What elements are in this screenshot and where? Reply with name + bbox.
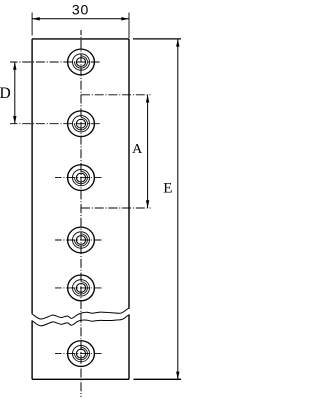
hole 2 — [68, 111, 95, 137]
hole 2 crosshair horizontal (also D bottom extension) — [10, 123, 101, 125]
break line lower wavy — [32, 315, 130, 326]
dim E: bottom arrow — [176, 372, 179, 380]
vertical centerline — [80, 30, 82, 397]
dim D: bottom arrow — [13, 116, 16, 124]
dim A: top extension line — [81, 94, 151, 96]
dim A: bottom extension line — [81, 207, 151, 209]
dim A: top arrow — [146, 95, 149, 103]
hole 6 crosshair horizontal — [55, 353, 102, 355]
svg-text:D: D — [0, 85, 11, 102]
plate outline top edge — [32, 38, 129, 40]
dim E: top arrow — [176, 39, 179, 47]
hole 1 — [68, 49, 95, 75]
plate outline bottom edge — [32, 378, 129, 380]
svg-text:E: E — [163, 181, 172, 197]
svg-text:30: 30 — [72, 2, 89, 18]
hole 6 — [68, 341, 95, 367]
svg-text:A: A — [132, 142, 143, 157]
dim 30: extension lines — [32, 13, 129, 39]
dim E: bottom extension line — [134, 378, 182, 380]
hole 5 crosshair horizontal — [55, 287, 102, 289]
hole 3 crosshair horizontal — [55, 177, 102, 179]
dim E: top extension line — [133, 38, 181, 40]
hole 3 — [68, 165, 95, 191]
hole 5 — [68, 275, 95, 301]
hole 4 — [68, 227, 95, 253]
dim A: bottom arrow — [146, 200, 149, 208]
dim D: top arrow — [13, 62, 16, 70]
break line upper wavy — [32, 308, 130, 319]
plate outline left edge (interrupted by break) — [31, 39, 33, 379]
hole 1 crosshair horizontal (also D top extension) — [10, 61, 101, 63]
dim 30: dimension line — [32, 18, 129, 20]
dim A: dimension line — [147, 95, 149, 208]
dim E: dimension line — [177, 39, 179, 379]
dim D: dimension line — [14, 62, 16, 124]
dim 30: right arrow — [121, 17, 129, 20]
dim 30: left arrow — [32, 17, 40, 20]
plate outline right edge (interrupted by break) — [128, 39, 130, 379]
hole 4 crosshair horizontal — [55, 239, 102, 241]
